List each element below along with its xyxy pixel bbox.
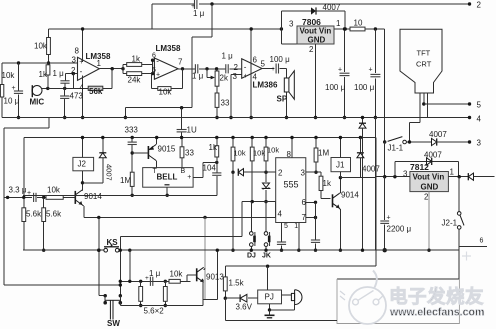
svg-text:8: 8 xyxy=(287,150,292,159)
capacitor 1u top rail xyxy=(151,4,153,29)
wire 10k a down xyxy=(232,172,234,250)
svg-text:1k: 1k xyxy=(39,70,48,79)
svg-text:+: + xyxy=(369,67,373,74)
svg-text:33: 33 xyxy=(185,149,194,158)
svg-text:10k: 10k xyxy=(2,71,16,80)
wire +12V riser xyxy=(375,138,377,267)
svg-text:+: + xyxy=(27,190,31,197)
svg-text:1 μ: 1 μ xyxy=(193,9,205,18)
svg-text:+: + xyxy=(187,174,191,181)
wire pin2 xyxy=(65,73,77,75)
svg-text:1 μ: 1 μ xyxy=(192,72,204,81)
wire raw 12V down xyxy=(384,29,386,142)
wire trigger line xyxy=(242,201,276,203)
resistor 1k xyxy=(46,65,50,75)
svg-text:1: 1 xyxy=(336,19,341,28)
wire CRT pin mid xyxy=(423,93,425,104)
svg-text:LM358: LM358 xyxy=(156,44,181,53)
wire Vin 7812 xyxy=(448,176,468,178)
resistor 10k feedback B xyxy=(182,69,184,89)
svg-text:10k: 10k xyxy=(34,42,48,51)
switch J2-1 xyxy=(458,177,460,212)
svg-text:5.6k: 5.6k xyxy=(26,210,42,219)
resistor 1k xyxy=(215,136,218,139)
svg-text:9014: 9014 xyxy=(84,192,102,201)
wire KS right riser xyxy=(119,236,121,295)
terminal 2 xyxy=(468,2,471,5)
svg-text:GND: GND xyxy=(308,36,326,45)
wire pin7 xyxy=(306,217,316,219)
diode 4007 gnd link xyxy=(362,118,364,124)
svg-text:555: 555 xyxy=(284,180,299,190)
svg-text:3: 3 xyxy=(477,139,482,148)
switch J1-1 xyxy=(383,140,386,143)
svg-text:3: 3 xyxy=(72,56,77,65)
svg-text:KS: KS xyxy=(107,238,119,247)
svg-text:5.6k: 5.6k xyxy=(46,210,62,219)
capacitor 100u output xyxy=(262,68,274,70)
svg-text:4: 4 xyxy=(80,83,85,92)
zener clamp xyxy=(265,172,267,182)
regulator U3 7806 xyxy=(297,26,334,44)
svg-text:6: 6 xyxy=(302,198,307,207)
svg-text:4007: 4007 xyxy=(323,3,341,12)
svg-text:LM386: LM386 xyxy=(253,81,278,90)
wire reset line xyxy=(84,216,276,218)
wire PJ out xyxy=(282,294,292,296)
svg-text:www.elecfans.com: www.elecfans.com xyxy=(389,307,484,319)
svg-text:J2: J2 xyxy=(78,160,87,169)
svg-text:6: 6 xyxy=(253,56,258,65)
svg-text:104: 104 xyxy=(203,164,217,173)
wire J2 bottom xyxy=(82,171,84,190)
diode 4007 flyback J2 xyxy=(102,138,104,153)
wire collector J1 xyxy=(339,191,342,194)
diode battery feed xyxy=(467,173,469,180)
wire rail2 left drop xyxy=(23,138,25,198)
svg-text:10k: 10k xyxy=(234,149,246,158)
resistor 5.6k #2 xyxy=(42,196,45,199)
terminal 3 xyxy=(468,140,471,143)
buzzer PJ box xyxy=(258,290,282,304)
resistor R 10k (mic bias upper) xyxy=(47,38,51,55)
svg-text:1k: 1k xyxy=(323,179,332,188)
capacitor 2200u xyxy=(384,177,386,221)
wire GND pin 7806 xyxy=(315,44,317,118)
svg-text:473: 473 xyxy=(70,92,84,101)
svg-text:1 μ: 1 μ xyxy=(53,69,65,78)
wire pin4 gnd xyxy=(82,76,84,118)
svg-text:MIC: MIC xyxy=(30,98,45,107)
svg-text:1.5k: 1.5k xyxy=(229,279,245,288)
wire speaker gnd xyxy=(286,92,288,118)
svg-text:5: 5 xyxy=(152,67,156,74)
wire SW to osc rail xyxy=(119,303,121,306)
left frame wire xyxy=(48,118,50,129)
transistor Q 9014 relay driver xyxy=(332,194,334,207)
transistor Q 9013 xyxy=(196,268,198,281)
wire pin3 input xyxy=(2,62,77,64)
svg-text:CRT: CRT xyxy=(416,60,432,69)
resistor 10k c xyxy=(264,136,267,139)
bottom common rail xyxy=(23,249,459,251)
svg-text:7806: 7806 xyxy=(302,17,321,27)
wire emitter 9014 xyxy=(82,205,84,206)
diode steering xyxy=(237,169,239,176)
wire PJ gnd xyxy=(269,304,271,310)
svg-text:9015: 9015 xyxy=(158,145,176,154)
svg-text:7: 7 xyxy=(302,213,307,222)
wire branch 9013 xyxy=(204,217,206,299)
svg-text:10: 10 xyxy=(354,19,363,28)
resistor 1.5k xyxy=(224,266,226,277)
diode 4007 to terminal3 xyxy=(432,138,437,145)
svg-text:5: 5 xyxy=(261,60,266,69)
svg-text:2: 2 xyxy=(278,169,283,178)
wire pin8 xyxy=(291,138,293,158)
resistor 5.6k #1 xyxy=(23,197,25,207)
svg-text:10k: 10k xyxy=(47,186,61,195)
zener 3.6V xyxy=(225,297,240,299)
svg-text:3: 3 xyxy=(233,72,238,81)
svg-text:BELL: BELL xyxy=(157,173,178,182)
wire pin6 power LM386 xyxy=(250,29,252,118)
resistor 10k b xyxy=(251,136,254,139)
capacitor 1u to LM386 xyxy=(225,64,227,73)
wire osc loop right xyxy=(203,298,218,300)
speaker SP xyxy=(286,69,288,79)
ground rail3 xyxy=(23,194,217,196)
svg-text:10k: 10k xyxy=(267,146,279,155)
svg-text:+: + xyxy=(145,275,149,282)
wire emitter xyxy=(339,207,342,210)
wire collector 9015 xyxy=(155,144,156,146)
svg-text:5: 5 xyxy=(477,101,482,110)
svg-text:+: + xyxy=(79,59,83,66)
wire mic node xyxy=(48,87,74,89)
resistor 10k a xyxy=(231,136,234,139)
wire jog to output B xyxy=(211,4,213,37)
wire pin6-7 join xyxy=(315,202,317,239)
svg-text:4: 4 xyxy=(477,115,482,124)
relay J2 box xyxy=(73,157,94,170)
svg-text:2: 2 xyxy=(309,45,314,54)
wire pin1 gnd xyxy=(298,223,300,251)
wire xyxy=(436,141,470,143)
svg-text:3: 3 xyxy=(301,169,306,178)
svg-text:4007: 4007 xyxy=(429,130,447,139)
capacitor 1u osc xyxy=(149,277,151,286)
svg-text:1: 1 xyxy=(450,168,455,177)
diode 4007 flyback J1 xyxy=(359,136,362,139)
svg-text:1M: 1M xyxy=(318,149,329,158)
node mic input xyxy=(47,61,50,64)
svg-text:Vout Vin: Vout Vin xyxy=(300,27,332,36)
resistor 10k base xyxy=(46,196,63,200)
capacitor 104 xyxy=(216,162,218,172)
svg-text:1 μ: 1 μ xyxy=(222,52,234,61)
ground symbol xyxy=(265,314,275,316)
svg-text:2: 2 xyxy=(477,1,482,10)
microphone MIC xyxy=(31,85,33,97)
svg-text:1 μ: 1 μ xyxy=(149,269,161,278)
battery section frame xyxy=(337,279,459,324)
wire return xyxy=(125,107,192,109)
svg-text:9013: 9013 xyxy=(206,273,224,282)
wire ground bus terminal4 xyxy=(2,117,469,119)
wire pin3 LM386 xyxy=(231,73,242,75)
svg-text:-: - xyxy=(156,56,159,65)
svg-text:2200 μ: 2200 μ xyxy=(387,225,412,234)
wire to edge xyxy=(473,176,494,178)
capacitor 100u filter 1 xyxy=(344,29,346,72)
svg-text:6: 6 xyxy=(480,238,484,245)
svg-text:4007: 4007 xyxy=(362,165,380,174)
op-amp U1A LM358 xyxy=(78,57,100,80)
wire J2 top xyxy=(82,138,84,158)
svg-text:10k: 10k xyxy=(159,88,173,97)
svg-text:333: 333 xyxy=(125,126,139,135)
svg-text:JK: JK xyxy=(262,253,271,260)
switch JK xyxy=(265,202,267,232)
wire collector xyxy=(81,189,83,192)
svg-text:+: + xyxy=(338,67,342,74)
resistor 56k feedback xyxy=(111,69,113,89)
resistor 24k xyxy=(127,72,142,76)
wire tab xyxy=(280,29,282,44)
wire pin5 xyxy=(281,223,283,242)
wire bell+ to 104 xyxy=(193,176,203,178)
svg-text:T: T xyxy=(153,168,158,175)
svg-text:3: 3 xyxy=(289,20,294,29)
switch DJ xyxy=(250,202,252,232)
wire ground drop right xyxy=(374,118,376,251)
transistor Q 9015 xyxy=(147,146,149,159)
wire xyxy=(154,280,169,282)
wire stub vertical xyxy=(152,60,154,73)
svg-text:+: + xyxy=(271,66,275,73)
svg-text:TFT: TFT xyxy=(417,49,431,58)
resistor 5.6k osc1 xyxy=(140,281,142,286)
wire KS riser xyxy=(241,202,243,237)
resistor 33 bell xyxy=(181,138,183,147)
svg-text:2: 2 xyxy=(71,66,76,75)
wire output B xyxy=(178,68,195,70)
svg-text:3: 3 xyxy=(403,170,408,179)
svg-text:1U: 1U xyxy=(187,126,197,135)
wire PJ rail xyxy=(224,298,226,320)
wire KS gap mask xyxy=(104,249,119,251)
svg-text:6: 6 xyxy=(152,53,156,60)
CRT monitor outline xyxy=(400,29,442,93)
diode 4007 bypass 7806 xyxy=(280,11,282,29)
svg-text:-: - xyxy=(244,62,247,71)
resistor 1M b xyxy=(314,136,317,139)
wire PJ power xyxy=(225,265,375,267)
wire osc top xyxy=(120,280,190,282)
node gain divider xyxy=(121,67,124,70)
capacitor 3.3u xyxy=(33,193,35,202)
svg-text:电子发烧友: 电子发烧友 xyxy=(389,286,484,307)
svg-text:10 μ: 10 μ xyxy=(4,97,20,106)
wire osc branch xyxy=(128,249,131,252)
capacitor 1U xyxy=(181,108,183,130)
wire xyxy=(49,28,282,30)
svg-text:100 μ: 100 μ xyxy=(354,83,375,92)
svg-text:+: + xyxy=(244,73,248,80)
svg-text:1k: 1k xyxy=(209,143,218,152)
capacitor 333 xyxy=(131,136,134,139)
svg-text:8: 8 xyxy=(75,47,80,56)
wire J2-1 down xyxy=(458,229,460,279)
transistor Q 9014 driver xyxy=(74,191,76,204)
wire xyxy=(4,196,32,198)
wire base 9015 xyxy=(132,152,148,154)
wire Vout 7812 xyxy=(376,176,410,178)
capacitor 10u xyxy=(17,61,20,64)
svg-text:56k: 56k xyxy=(89,87,103,96)
svg-text:2k: 2k xyxy=(220,74,229,83)
op-amp U2 LM386 xyxy=(242,59,262,78)
wire emitter 9015 xyxy=(155,160,156,162)
svg-text:-: - xyxy=(80,67,83,76)
resistor 10k osc xyxy=(169,279,180,283)
wire Vout node xyxy=(280,27,283,30)
wire mic out xyxy=(42,87,48,89)
timer U5 555 xyxy=(276,158,306,223)
svg-text:3.6V: 3.6V xyxy=(236,303,253,312)
svg-text:4007: 4007 xyxy=(424,151,442,160)
wire CRT pin right xyxy=(426,93,428,118)
wire terminal6 xyxy=(459,245,487,247)
resistor 10 xyxy=(350,27,365,31)
node top cap xyxy=(210,2,213,5)
svg-text:GND: GND xyxy=(421,183,439,192)
svg-text:24k: 24k xyxy=(128,76,142,85)
resistor 10k (left box) xyxy=(1,63,3,118)
wire J1 bottom xyxy=(339,172,341,178)
op-amp U1B LM358 xyxy=(154,58,178,79)
svg-text:7812: 7812 xyxy=(410,162,429,172)
capacitor pin5 xyxy=(277,241,286,243)
wire pin8 power xyxy=(82,29,84,62)
resistor 1M xyxy=(130,172,134,186)
bell module BELL xyxy=(143,168,193,188)
wire branch down KS xyxy=(98,217,100,295)
svg-text:PJ: PJ xyxy=(265,293,274,302)
potentiometer 2k xyxy=(206,69,208,78)
relay J1 box xyxy=(331,158,351,172)
wire base xyxy=(63,196,75,198)
wire pin1 Vin xyxy=(334,28,350,30)
svg-text:7: 7 xyxy=(178,58,183,67)
wire PJ return xyxy=(270,309,295,311)
svg-text:10k: 10k xyxy=(253,149,265,158)
wire bell gnd xyxy=(166,187,168,195)
wire pin6 xyxy=(306,201,316,203)
svg-text:J1-1: J1-1 xyxy=(388,144,404,153)
wire raw to J1-1 down xyxy=(384,142,386,177)
svg-text:100 μ: 100 μ xyxy=(270,55,291,64)
terminal 4 xyxy=(468,116,471,119)
wire +12V rail middle xyxy=(24,137,376,139)
watermark logo elecfans xyxy=(349,271,386,325)
svg-text:9014: 9014 xyxy=(341,191,359,200)
resistor 1k interstage xyxy=(127,63,142,67)
svg-text:33: 33 xyxy=(221,99,230,108)
capacitor 1u input xyxy=(64,74,66,81)
wire collector 9013 xyxy=(204,269,205,270)
svg-text:2: 2 xyxy=(424,193,429,202)
svg-text:B: B xyxy=(181,168,186,175)
svg-text:DJ: DJ xyxy=(247,253,256,260)
svg-text:+: + xyxy=(156,72,160,79)
svg-text:J2-1: J2-1 xyxy=(442,219,458,228)
wire flyback bottom xyxy=(340,177,375,179)
diode 4007 bypass 7812 xyxy=(394,161,396,176)
horn xyxy=(291,293,294,300)
svg-text:1k: 1k xyxy=(132,55,141,64)
svg-text:100 μ: 100 μ xyxy=(325,83,346,92)
capacitor 473 xyxy=(64,88,66,96)
svg-text:1: 1 xyxy=(97,59,102,68)
capacitor 1u coupling xyxy=(194,64,196,73)
wire xyxy=(406,141,431,143)
wire GND pin 7812 xyxy=(428,192,430,251)
svg-text:Vout Vin: Vout Vin xyxy=(413,173,445,182)
wire to raw rail xyxy=(365,28,385,30)
capacitor timing xyxy=(311,239,320,241)
switch KS xyxy=(104,248,108,252)
svg-text:5: 5 xyxy=(284,223,288,230)
wire emitter 9013 xyxy=(202,280,205,281)
wire PJ drive xyxy=(267,266,269,290)
wire terminal5 xyxy=(424,103,470,105)
svg-text:10k: 10k xyxy=(170,270,184,279)
svg-text:SW: SW xyxy=(107,319,120,328)
wire battery return xyxy=(337,278,459,280)
wire J1 top xyxy=(339,138,341,158)
resistor 33 xyxy=(216,86,218,93)
resistor 5.6k osc2 xyxy=(164,281,166,286)
wire base 9013 xyxy=(187,274,197,276)
svg-text:J1: J1 xyxy=(336,161,345,170)
svg-text:2: 2 xyxy=(234,63,239,72)
svg-text:+: + xyxy=(12,85,16,92)
svg-text:SP: SP xyxy=(277,95,288,104)
svg-text:3.3 μ: 3.3 μ xyxy=(9,186,27,195)
wire to pin2 xyxy=(243,171,275,173)
svg-text:4: 4 xyxy=(278,210,283,219)
node xyxy=(97,249,100,252)
svg-text:1M: 1M xyxy=(120,176,131,185)
resistor 1k 555 xyxy=(320,172,322,176)
svg-text:1: 1 xyxy=(294,223,298,230)
svg-text:4007: 4007 xyxy=(105,164,114,181)
terminal 5 xyxy=(468,102,471,105)
capacitor 100u filter 2 xyxy=(374,29,376,73)
svg-text:+: + xyxy=(387,215,391,222)
wire output A xyxy=(99,68,123,70)
wire CRT pin left xyxy=(419,93,421,123)
switch SW xyxy=(99,295,105,297)
wire pin3 out xyxy=(306,171,321,173)
regulator U4 7812 xyxy=(410,172,449,192)
svg-text:5.6×2: 5.6×2 xyxy=(144,307,165,316)
osc bottom rail xyxy=(120,305,202,307)
